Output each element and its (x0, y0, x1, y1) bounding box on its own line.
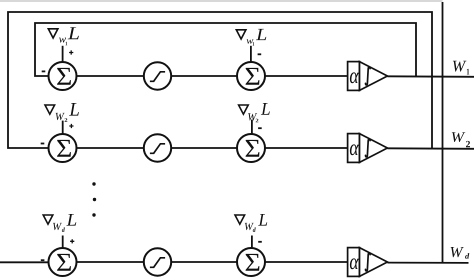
saturation (limiter) block row 1 (144, 62, 171, 89)
wire gradient input into summing junction S2 row 2 (251, 120, 253, 135)
integrator triangle row 3 (360, 248, 388, 277)
summing junction S2 row 1 (237, 62, 265, 90)
wire saturation to S2 row 2 (171, 147, 237, 149)
summing junction S2 row 2 (237, 134, 265, 162)
output wire row 2 (387, 147, 474, 150)
integrator triangle row 1 (360, 62, 388, 91)
output label W2 (452, 132, 470, 147)
gain block alpha row 1 (348, 62, 360, 91)
gain block alpha row 3 (348, 248, 360, 277)
wire S2 to gain block row 3 (265, 261, 348, 263)
gradient label nabla_Wd L (input row 3) (43, 214, 76, 232)
plus sign at summing junction row 3 (70, 239, 74, 243)
wire S2 to gain block row 1 (265, 75, 348, 77)
gradient label nabla_w1 L (gradient row 1) (236, 29, 266, 46)
summing junction S1 row 3 (49, 248, 77, 276)
feedback wire Wd vertical (442, 2, 444, 263)
wire gradient input into summing junction row 2 (62, 121, 64, 135)
feedback wire Wd top line (clipped at image top) (0, 0, 443, 2)
wire row3 left input from clipped loop (0, 261, 49, 263)
output wire row 1 (387, 75, 474, 78)
feedback wire W1 loop (top inner line) (35, 23, 416, 77)
output label Wd (451, 247, 470, 259)
integrator triangle row 2 (360, 134, 388, 163)
summing junction S1 row 1 (49, 62, 77, 90)
wire gradient input into summing junction S2 row 1 (250, 46, 252, 62)
junction crossing W2 wire / Wd feedback (441, 147, 443, 149)
wire S1 to saturation row 2 (77, 147, 144, 149)
output label W1 (453, 61, 469, 75)
plus sign at summing junction row 1 (69, 50, 73, 54)
minus sign at feedback input row 3 (41, 259, 45, 261)
saturation (limiter) block row 3 (144, 248, 171, 275)
junction crossing W1 wire / W2 feedback (431, 75, 433, 77)
wire saturation to S2 row 1 (171, 75, 237, 77)
vertical ellipsis (continuation dots) (92, 182, 96, 216)
summing junction S1 row 2 (49, 134, 77, 162)
gain block alpha row 2 (348, 134, 360, 163)
wire gradient input into summing junction row 1 (62, 46, 64, 62)
summing junction S2 row 3 (237, 248, 265, 276)
minus sign at S2 input row 1 (258, 53, 262, 55)
saturation (limiter) block row 2 (144, 134, 171, 161)
wire S2 to gain block row 2 (265, 147, 348, 149)
junction crossing W1 wire / Wd feedback (441, 75, 443, 77)
output wire row 3 (387, 262, 468, 264)
plus sign at summing junction row 2 (69, 124, 73, 128)
wire S1 to saturation row 1 (77, 75, 144, 77)
minus sign at S2 input row 3 (258, 241, 262, 243)
feedback wire W2 loop (top middle line) (8, 12, 432, 149)
gradient label nabla_W2 L (input row 2) (45, 103, 79, 122)
minus sign at feedback input row 2 (41, 143, 45, 145)
minus sign at S2 input row 2 (258, 127, 262, 129)
gradient label nabla_W2 L (gradient row 2) (239, 103, 270, 122)
wire gradient input into summing junction row 3 (62, 236, 64, 249)
wire saturation to S2 row 3 (171, 261, 237, 263)
gradient label nabla_w1 L (input row 1) (48, 27, 79, 45)
gradient label nabla_Wd L (gradient row 3) (235, 214, 267, 232)
minus sign at feedback input row 1 (42, 70, 46, 72)
wire gradient input into summing junction S2 row 3 (251, 236, 253, 249)
wire S1 to saturation row 3 (77, 261, 144, 263)
